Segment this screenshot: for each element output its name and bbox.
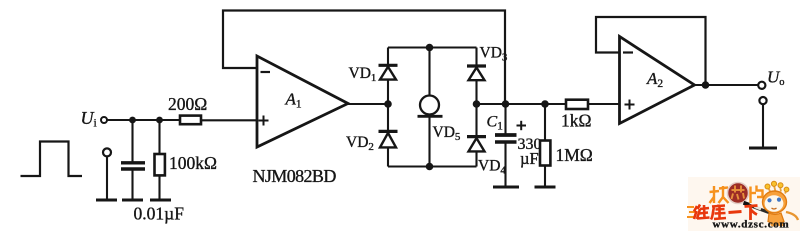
ground (100k) bbox=[150, 199, 171, 202]
capacitor 0.01uF bbox=[121, 161, 145, 164]
wire feedback A1 bbox=[223, 11, 505, 105]
watermark background bbox=[688, 177, 800, 231]
op-amp A1 bbox=[257, 56, 348, 147]
resistor 1M bbox=[540, 141, 550, 166]
junction 1M branch bbox=[541, 100, 549, 108]
diode VD1 bbox=[379, 65, 398, 79]
wire feedback A2 bbox=[596, 17, 706, 85]
diode VD5 (circle symbol) bbox=[418, 96, 443, 117]
diode VD4 bbox=[467, 137, 486, 152]
svg-text:µF: µF bbox=[520, 149, 539, 168]
capacitor C1 330uF bbox=[495, 133, 517, 137]
terminal Uo bbox=[758, 82, 765, 89]
wire node line bbox=[477, 103, 567, 105]
ground (1M) bbox=[535, 186, 556, 189]
op-amp A2 bbox=[620, 37, 695, 124]
watermark pian character bbox=[751, 186, 763, 204]
ground (C1) bbox=[493, 186, 519, 189]
svg-text:0.01µF: 0.01µF bbox=[134, 204, 185, 224]
wire bridge bottom rail bbox=[388, 165, 477, 167]
wire input line bbox=[107, 119, 180, 121]
wire VD5 branch bbox=[428, 48, 430, 167]
junction input-cap bbox=[129, 117, 136, 124]
junction top rail / VD5 branch bbox=[426, 44, 434, 52]
wire A1 output bbox=[348, 103, 388, 105]
watermark mascot bbox=[744, 181, 799, 226]
input pulse waveform bbox=[21, 142, 83, 177]
junction bridge right / node line bbox=[473, 100, 481, 108]
junction input-100k bbox=[156, 117, 163, 124]
ground (capacitor) bbox=[122, 199, 143, 202]
wire bridge right branch bbox=[475, 48, 477, 167]
wire cap to ground bbox=[131, 171, 133, 201]
watermark weikuyixia text bbox=[694, 205, 758, 221]
svg-text:1kΩ: 1kΩ bbox=[561, 111, 592, 131]
junction A1 output / bridge left bbox=[384, 100, 392, 108]
wire 1M branch bbox=[544, 104, 546, 141]
label plus C1 bbox=[517, 125, 527, 127]
wire C1 to ground bbox=[504, 144, 506, 188]
diode VD2 bbox=[379, 131, 398, 147]
svg-text:NJM082BD: NJM082BD bbox=[253, 166, 337, 186]
ground (output) bbox=[749, 147, 777, 150]
diode VD3 bbox=[467, 66, 486, 80]
svg-text:200Ω: 200Ω bbox=[168, 94, 207, 114]
wire C1 branch bbox=[504, 104, 506, 134]
resistor 200ohm bbox=[180, 116, 201, 125]
junction feedback / C1 bbox=[502, 100, 510, 108]
svg-text:1MΩ: 1MΩ bbox=[556, 145, 593, 165]
watermark seal circle with xin bbox=[728, 183, 749, 204]
wire A2 output bbox=[695, 84, 759, 86]
wire output terminal to ground bbox=[762, 104, 764, 148]
wire 100k to ground bbox=[158, 176, 160, 201]
svg-text:100kΩ: 100kΩ bbox=[169, 153, 217, 173]
wire cap branch bbox=[131, 120, 133, 162]
junction A2 output / feedback bbox=[702, 81, 710, 89]
terminal output ground bbox=[759, 97, 766, 104]
wire terminal to ground bbox=[106, 157, 108, 200]
svg-text:www.dzsc.com: www.dzsc.com bbox=[713, 218, 790, 230]
junction bottom rail / VD5 branch bbox=[426, 163, 434, 171]
wire 100k branch bbox=[158, 120, 160, 155]
watermark zhao character bbox=[710, 186, 729, 203]
wire bridge left branch bbox=[387, 48, 389, 167]
terminal Ui bbox=[101, 117, 107, 123]
ground (input terminal) bbox=[96, 199, 117, 202]
watermark speed dashes bbox=[687, 207, 695, 217]
wire 200ohm to A1 plus bbox=[201, 119, 257, 121]
wire 1k to A2 plus bbox=[588, 103, 620, 105]
resistor 1k bbox=[566, 100, 588, 109]
wire 1M to ground bbox=[544, 166, 546, 188]
resistor 100k bbox=[155, 154, 165, 175]
wire bridge top rail bbox=[388, 46, 477, 48]
terminal input ground bbox=[103, 148, 111, 156]
